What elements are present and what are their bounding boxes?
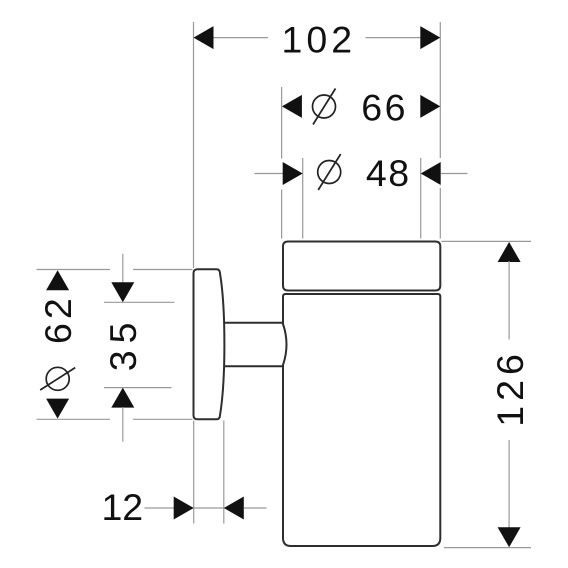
extension line 62 bottom (y=419.3) right part: [133, 418, 193, 420]
extension line 35 bottom (y=387.6): [104, 387, 172, 389]
dimension 48 left arrow: [283, 162, 303, 185]
cup body: [283, 294, 440, 546]
dimension 102 right arrow: [420, 26, 440, 49]
dimension 62 bottom arrow: [46, 399, 69, 419]
extension line 62 top (y=269.5) left part: [37, 269, 111, 271]
extension line 126 bottom (y=547.6): [444, 547, 531, 549]
collar arc: [283, 324, 287, 365]
svg-text:66: 66: [361, 86, 408, 128]
extension line right (x=440.3) upper: [439, 22, 441, 158]
dimension 102 line right segment: [366, 37, 422, 39]
extension line dia48 left (x=302.7): [302, 158, 304, 239]
diameter symbol 66: [313, 89, 336, 125]
dimension 12 right leader: [244, 507, 267, 509]
dimension 48 left leader: [255, 173, 284, 175]
dimension 66 right arrow: [420, 95, 440, 118]
extension line dia66 left (x=281.6) upper: [281, 87, 283, 159]
dimension 48 right leader: [441, 173, 468, 175]
dimension 62 top arrow: [46, 270, 69, 290]
extension line dia66 left (x=281.6) lower: [281, 190, 283, 239]
dimension 126 line upper segment: [508, 261, 510, 340]
arm bottom line: [220, 365, 283, 367]
extension line dia48 right (x=420.7): [420, 158, 422, 239]
extension line wall top (x=193.5): [193, 22, 195, 268]
svg-text:102: 102: [282, 18, 357, 60]
dimension 102 line left segment: [213, 37, 269, 39]
dimension 35 vertical line lower: [122, 407, 124, 442]
extension line 12 right (x=223.8): [223, 421, 225, 524]
dimension 12 left leader: [145, 507, 175, 509]
dimension 126 bottom arrow: [498, 527, 521, 547]
wall plate: [194, 269, 225, 419]
dimension 12 middle segment: [194, 507, 224, 509]
dimension 35 top arrow: [111, 282, 134, 302]
dimension 126 top arrow: [498, 242, 521, 262]
diameter symbol 62: [40, 367, 75, 390]
dimension 66 left arrow: [282, 95, 302, 118]
arm top line: [220, 322, 283, 324]
dimension 102 left arrow: [194, 26, 214, 49]
extension line 62 bottom (y=419.3) left part: [37, 418, 111, 420]
svg-text:12: 12: [101, 486, 143, 528]
diameter symbol 48: [318, 154, 341, 190]
svg-text:35: 35: [102, 316, 144, 372]
dimension 35 vertical line upper: [122, 254, 124, 283]
cup rim: [283, 242, 440, 291]
extension line 62 top (y=269.5) right part: [133, 269, 193, 271]
svg-text:126: 126: [489, 349, 531, 427]
extension line 126 top (y=241.4): [442, 240, 532, 242]
extension line 35 top (y=302.3): [104, 301, 175, 303]
extension line 12 left (x=193.7): [193, 421, 195, 524]
svg-text:48: 48: [366, 152, 411, 194]
extension line right (x=440.3) lower: [439, 188, 441, 239]
svg-text:62: 62: [37, 294, 79, 344]
white gap in cup edge behind collar: [281, 325, 286, 365]
dimension 126 line lower segment: [508, 440, 510, 528]
dimension 12 left arrow: [174, 497, 194, 520]
dimension 48 right arrow: [421, 162, 441, 185]
dimension 35 bottom arrow: [111, 388, 134, 408]
dimension 12 right arrow: [224, 497, 244, 520]
